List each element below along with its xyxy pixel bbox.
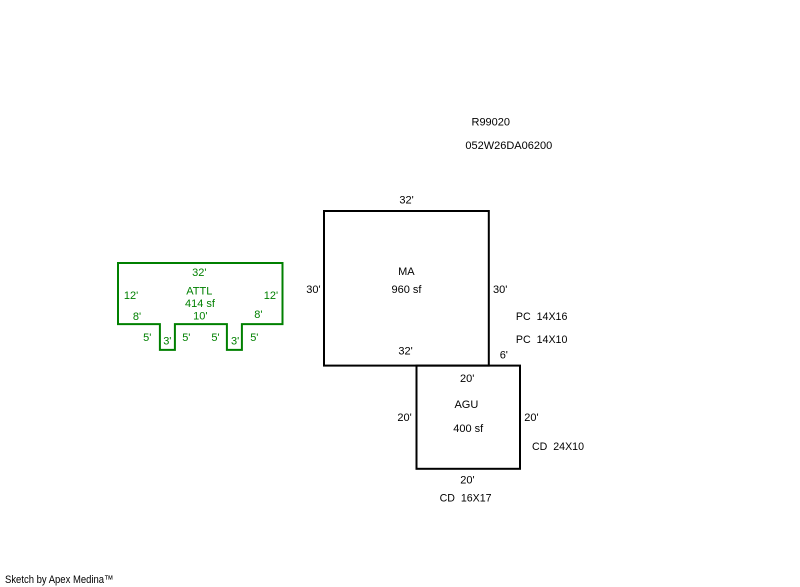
svg-text:3': 3' — [163, 336, 171, 348]
MA building outline — [324, 211, 489, 366]
svg-text:5': 5' — [143, 332, 151, 344]
svg-text:414 sf: 414 sf — [185, 298, 216, 310]
svg-text:400 sf: 400 sf — [453, 423, 484, 435]
svg-text:32': 32' — [399, 195, 413, 207]
svg-text:AGU: AGU — [454, 399, 478, 411]
svg-text:8': 8' — [133, 311, 141, 323]
svg-text:R99020: R99020 — [472, 116, 511, 128]
svg-text:20': 20' — [397, 412, 411, 424]
svg-text:PC 14X16: PC 14X16 — [516, 311, 568, 323]
svg-text:CD 24X10: CD 24X10 — [532, 441, 584, 453]
svg-text:8': 8' — [254, 309, 262, 321]
svg-text:12': 12' — [124, 290, 138, 302]
svg-text:20': 20' — [460, 475, 474, 487]
svg-text:5': 5' — [211, 332, 219, 344]
svg-text:052W26DA06200: 052W26DA06200 — [465, 140, 552, 152]
svg-text:20': 20' — [460, 373, 474, 385]
svg-text:960 sf: 960 sf — [392, 284, 423, 296]
svg-text:Sketch by Apex Medina™: Sketch by Apex Medina™ — [5, 574, 114, 586]
svg-text:30': 30' — [493, 284, 507, 296]
svg-text:CD 16X17: CD 16X17 — [440, 493, 492, 505]
svg-text:30': 30' — [306, 284, 320, 296]
svg-text:MA: MA — [398, 266, 415, 278]
svg-text:10': 10' — [193, 310, 207, 322]
ATTL outline (green polygon with two notches) — [118, 263, 283, 350]
svg-text:12': 12' — [264, 290, 278, 302]
svg-text:3': 3' — [231, 336, 239, 348]
AGU building outline — [417, 366, 521, 469]
svg-text:5': 5' — [250, 332, 258, 344]
svg-text:32': 32' — [398, 346, 412, 358]
svg-text:32': 32' — [192, 267, 206, 279]
svg-text:ATTL: ATTL — [186, 285, 212, 297]
svg-text:6': 6' — [500, 349, 508, 361]
svg-text:PC 14X10: PC 14X10 — [516, 334, 568, 346]
svg-text:5': 5' — [182, 332, 190, 344]
svg-text:20': 20' — [524, 412, 538, 424]
